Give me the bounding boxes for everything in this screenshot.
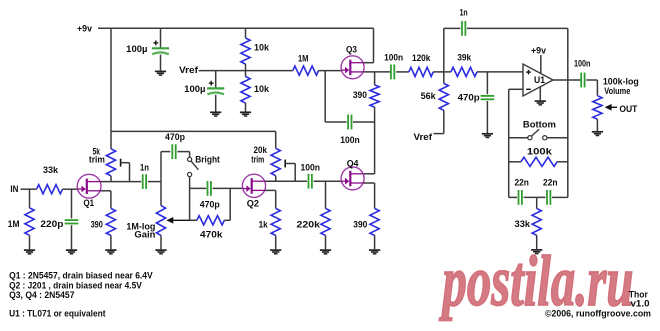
capacitor 100n C-mu [347,115,349,130]
wire node to bright [160,152,162,182]
svg-text:100n: 100n [300,162,320,173]
wire node to pot top [160,182,162,206]
resistor 390 Q4 source [370,208,379,235]
wire 33k fb top lead [536,197,538,208]
ground 1k [270,249,281,251]
ground 10k divider [240,111,251,113]
ground 220k [320,249,331,251]
wire 390 mu bottom lead [374,107,376,122]
wire mu feedback row left [325,121,346,123]
svg-text:U1 : TL071 or equivalent: U1 : TL071 or equivalent [9,309,105,319]
switch Bottom lever [531,129,539,136]
wire feedback right riser [567,80,569,197]
wire Q1 source [101,190,111,192]
wire 390 Q4 bottom lead [374,235,376,249]
wiper gain arrow [166,217,173,224]
wire 1M in bottom lead [29,235,31,249]
svg-text:trim: trim [251,155,264,166]
resistor 120k [409,67,433,76]
resistor 39k [451,67,477,76]
wire 33k to Q1 gate [63,188,79,190]
switch Bottom contact left [528,136,532,140]
wire U1 vcc pin [540,55,542,73]
wire bright drop [189,177,191,221]
resistor 1k Q2 source [271,208,280,235]
wire 22n mid row [524,196,546,198]
wire Q2 source [265,189,276,191]
trimmer 5k resistor [106,149,115,176]
capacitor 470p series [207,181,209,196]
svg-text:+9v: +9v [531,45,547,56]
svg-text:470p: 470p [458,92,480,103]
trimmer 5k wiper [120,159,122,167]
wire Q3 drain [364,62,374,64]
svg-text:56k: 56k [421,91,437,102]
svg-text:IN: IN [10,184,18,195]
svg-text:33k: 33k [43,165,59,176]
trimmer 20k resistor [271,148,280,175]
wire 22n row right lead [552,196,568,198]
resistor 10k R-div2 [241,77,250,104]
svg-text:1M: 1M [8,219,20,230]
resistor 1M input [25,208,34,236]
svg-text:22n: 22n [543,177,558,188]
wire bright row right [178,151,190,153]
resistor 390 R-mu [370,85,379,107]
capacitor 470p bright [171,144,173,159]
wire 20k bottom lead [275,176,277,182]
svg-text:390: 390 [353,220,367,231]
ground 100u C2 [210,111,221,113]
svg-text:39k: 39k [457,52,472,63]
capacitor 1n coupling [142,174,144,189]
wire 1n row right [467,27,568,29]
svg-text:Vref: Vref [414,132,433,143]
wire 220p top lead [71,189,73,218]
wire 220p bottom lead [71,225,73,249]
wire 100u C2 bottom lead [215,95,217,112]
wire 39k to U1 plus [477,71,523,73]
potentiometer Volume 100k-log [593,96,602,120]
capacitor 220p [65,219,79,221]
wire U1 gnd pin [539,87,541,100]
wire 470k right lead [224,219,230,221]
wire 220k bottom lead [325,235,327,249]
wire mu feedback row right [353,121,375,123]
wire 100u C1 top lead [160,28,162,47]
wire 470p2 row left [190,187,207,189]
wire 5k bottom lead [110,176,112,182]
capacitor 100n C-out [580,73,582,88]
svg-text:Vref: Vref [179,65,199,76]
wire Q4 source [364,182,375,184]
svg-text:U1: U1 [534,75,546,86]
switch Bright contact top [188,157,192,161]
ground volume [592,131,603,133]
wire +9v drop to 5k trim [110,28,112,149]
svg-text:Q1 : 2N5457, drain biased near: Q1 : 2N5457, drain biased near 6.4V [9,270,153,280]
wire pot bottom lead [160,235,162,249]
wire 1n to node [148,181,161,183]
wire 100n to Q4 gate [314,180,342,182]
ground 390 Q1 [105,249,116,251]
resistor 100k feedback [521,157,557,166]
capacitor 1n C-fb [461,21,463,36]
svg-text:Bottom: Bottom [523,119,556,130]
wire 470p U1 top lead [486,72,488,94]
wire Vref row [199,70,293,72]
capacitor 100u C-power1 [152,47,169,49]
resistor 33k feedback [532,209,541,236]
wire bottom switch right [547,137,568,139]
wire 1n riser right [567,28,569,80]
trimmer 20k wiper [284,160,286,168]
wire 10k junction [245,64,247,77]
ground 220p [66,249,77,251]
svg-text:470p: 470p [165,132,185,143]
svg-text:1n: 1n [460,8,468,19]
ground 1M input [24,249,35,251]
wire sub-rail drop to 20k trim [275,131,277,148]
svg-text:22n: 22n [514,177,529,188]
wire bottom switch left [509,137,528,139]
svg-text:Q2: Q2 [247,199,259,210]
wire +9v rail [98,27,374,29]
wire 470p U1 bottom lead [486,101,488,133]
wire 220k top lead [325,181,327,208]
resistor 33k input [37,185,63,194]
transistor Q2 [242,174,265,197]
svg-text:100µ: 100µ [184,84,205,95]
wire 100n to 120k [396,71,409,73]
capacitor 22n C-fb1 [518,190,520,205]
wire U1 output [553,79,581,81]
wire 1M in top lead [29,189,31,208]
resistor 10k R-div1 [241,38,250,64]
watermark postila.ru [439,241,634,321]
wire 390 Q1 bottom lead [110,235,112,249]
svg-text:100n: 100n [384,52,403,63]
svg-text:Q3: Q3 [346,45,357,56]
svg-text:1n: 1n [140,162,149,173]
resistor 56k [439,83,448,110]
wire Q2 drain row [265,180,307,182]
svg-text:Q4: Q4 [347,158,359,169]
wire Q3 gate drop [324,71,326,122]
wire 1M to Q3 gate [319,70,342,72]
svg-text:10k: 10k [254,84,270,95]
wire 390 mu top lead [374,72,376,85]
svg-text:100µ: 100µ [126,44,147,55]
transistor Q4 [341,167,364,190]
wiper volume arrow [605,104,612,111]
wire 100k fb left lead [509,161,521,163]
svg-text:1M: 1M [298,53,309,64]
svg-text:©2006, runoffgroove.com: ©2006, runoffgroove.com [545,309,651,320]
wire 1n riser left [443,28,445,72]
svg-text:Volume: Volume [604,86,630,97]
capacitor 470p C-in-U1 [481,95,495,97]
svg-text:100n: 100n [574,59,591,70]
wire 22n row left lead [509,196,517,198]
svg-text:120k: 120k [412,53,431,64]
ground 33k feedback [531,249,542,251]
svg-text:10k: 10k [254,43,270,54]
svg-text:100k: 100k [527,146,553,157]
potentiometer Gain 1M-log [156,206,165,236]
switch Bottom contact right [543,136,547,140]
wire 56k bottom lead [443,110,445,133]
wire feedback left riser [508,89,510,197]
svg-text:Q2 : J201 , drain biased near: Q2 : J201 , drain biased near 4.5V [9,280,142,290]
transistor Q1 [77,174,101,198]
wire 470p2 row right [213,187,243,189]
ground U1 [535,100,546,102]
wire Q3 source row [364,71,391,73]
wire U1 minus lead [509,88,523,90]
svg-text:470k: 470k [200,229,223,240]
ground gain pot [155,249,166,251]
wire bright row left [161,151,170,153]
wire Q4 drain riser [374,122,376,174]
capacitor 100u C-power2 [207,87,224,89]
wire 100n to volume [586,79,597,81]
wire 120k to 39k [433,71,451,73]
transistor Q3 [341,56,364,79]
svg-text:390: 390 [91,220,103,231]
svg-text:Q3, Q4 : 2N5457: Q3, Q4 : 2N5457 [9,290,74,300]
capacitor 100n interstage [308,174,310,189]
wire +9v sub-rail [111,130,276,132]
svg-text:+9v: +9v [77,23,93,34]
wire volume bottom lead [596,119,598,131]
resistor 390 Q1 source [106,208,115,235]
op-amp U1 [523,64,553,96]
wire 100u C1 bottom lead [160,55,162,71]
wire 56k top lead [443,72,445,84]
svg-text:220p: 220p [40,219,63,230]
ground 100u C1 [155,70,166,72]
svg-text:33k: 33k [515,219,531,230]
ground 470p U1 [482,133,493,135]
resistor 1M R-bias [293,66,319,75]
wire 10k R2 bottom lead [245,103,247,112]
capacitor 100n C-out-mu [390,65,392,80]
wire 100k fb right lead [557,161,568,163]
svg-text:Gain: Gain [134,229,155,240]
ground 390 Q4 [369,249,380,251]
svg-text:OUT: OUT [619,104,637,115]
resistor 470k [197,216,225,225]
svg-text:Q1: Q1 [84,198,95,209]
switch Bright contact bottom [188,172,192,176]
wire 100u C2 top lead [215,71,217,88]
svg-text:220k: 220k [297,220,321,231]
svg-text:390: 390 [353,90,367,101]
svg-text:100n: 100n [340,135,360,146]
resistor 220k [321,208,330,235]
capacitor 22n C-fb2 [546,190,548,205]
switch Bright lever [191,161,198,170]
svg-text:1k: 1k [259,220,269,231]
wire wiper row [190,219,197,221]
wire 1k bottom lead [275,235,277,249]
wire Q1 drain row [101,181,142,183]
svg-text:470p: 470p [200,200,220,211]
wire 1n row left [444,27,461,29]
wire 10k R1 top lead [245,28,247,38]
wire IN lead [21,188,37,190]
wire Vref tick [434,133,444,135]
wire 33k fb bottom lead [536,235,538,249]
svg-text:Bright: Bright [195,154,220,165]
svg-text:trim: trim [89,154,105,165]
